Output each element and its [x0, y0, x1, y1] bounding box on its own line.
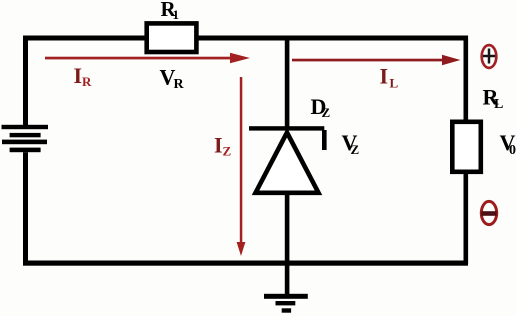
current arrow IL	[292, 55, 461, 66]
label Vz	[342, 130, 360, 157]
wire: middle branch lower (zener anode to bottom rail)	[285, 193, 290, 265]
resistor R1	[147, 23, 197, 52]
svg-text:R: R	[174, 77, 185, 92]
zener diode Dz : anode triangle	[256, 133, 319, 193]
current arrow IZ	[237, 77, 246, 256]
zener diode Dz : cathode bar	[249, 126, 324, 130]
ground	[264, 265, 308, 313]
wire: right branch lower (RL to bottom rail)	[464, 174, 469, 264]
svg-text:L: L	[494, 97, 503, 112]
wire: bottom horizontal rail	[23, 261, 468, 266]
current arrow IR	[45, 53, 250, 64]
wire: left vertical lower (battery - to bottom rail)	[23, 152, 28, 265]
svg-text:Z: Z	[351, 142, 360, 157]
label IR	[74, 63, 93, 89]
label VR	[160, 65, 185, 93]
wire: left vertical upper (to battery +)	[23, 36, 28, 126]
label IL	[380, 64, 399, 91]
svg-text:I: I	[380, 64, 389, 89]
label IZ	[214, 133, 232, 159]
label Dz	[311, 94, 331, 120]
wire: middle branch upper (top rail to zener cathode)	[285, 40, 290, 130]
output terminal minus	[481, 201, 496, 224]
output terminal plus	[482, 45, 497, 68]
battery V1	[2, 125, 49, 152]
label RL	[483, 85, 504, 113]
label R1	[161, 0, 180, 22]
wire: right branch upper (top rail to RL)	[464, 36, 469, 122]
zener diode Dz : cathode hook	[322, 130, 327, 150]
svg-text:Z: Z	[322, 105, 331, 120]
svg-text:1: 1	[173, 7, 180, 22]
svg-text:R: R	[82, 74, 92, 89]
svg-text:I: I	[214, 133, 223, 158]
svg-text:Z: Z	[223, 144, 232, 159]
resistor RL	[452, 122, 481, 172]
wire: top horizontal from battery to RL branch	[23, 36, 468, 41]
svg-text:I: I	[74, 63, 83, 88]
svg-text:L: L	[390, 76, 399, 91]
label Vo	[500, 130, 517, 158]
svg-text:0: 0	[509, 143, 516, 158]
